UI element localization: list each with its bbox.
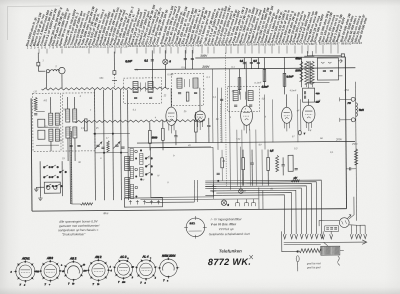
connector strip on chassis <box>124 198 162 207</box>
IF transformer T3 (dashed screen) <box>228 87 260 112</box>
rectifier / heater winding box <box>317 58 342 80</box>
svg-text:110V: 110V <box>295 69 301 72</box>
svg-text:AF 3: AF 3 <box>46 256 53 260</box>
svg-text:0,1mF: 0,1mF <box>286 75 293 78</box>
HT rail 300V <box>195 57 345 58</box>
heater bus wires <box>205 185 216 187</box>
tuning gang C1a/C1b (variable) <box>93 133 130 154</box>
svg-text:a: a <box>167 280 168 282</box>
svg-text:0,5uF: 0,5uF <box>167 73 174 76</box>
input band filter coils L4/L5 with trimmers <box>66 97 88 161</box>
loudspeaker field coil <box>355 82 364 221</box>
svg-text:0,1: 0,1 <box>144 58 148 62</box>
oscillator padder coil column <box>130 148 138 198</box>
svg-text:uuF: uuF <box>317 99 322 102</box>
tube base AF3 <box>36 256 66 286</box>
HT rail 200V <box>134 68 355 70</box>
fuse in negative lead <box>298 99 306 135</box>
chassis left frame wire <box>30 98 33 211</box>
chassis shield line (wavy) <box>42 87 169 90</box>
pick-up sockets <box>34 182 60 193</box>
right frame wire <box>345 57 346 209</box>
mains filter capacitors row <box>240 57 269 88</box>
svg-text:2500: 2500 <box>351 143 358 146</box>
speaker connector forks <box>236 199 256 206</box>
IF transformer T2 (dashed screen) <box>171 73 203 105</box>
pencil check mark <box>249 255 253 259</box>
svg-text:5000: 5000 <box>152 136 158 139</box>
valve AF3 (IF amp) <box>195 88 206 130</box>
svg-text:III: III <box>142 178 144 181</box>
tube lead drops <box>237 130 262 189</box>
barretter / regulator <box>339 215 351 228</box>
svg-text:RGN 2004: RGN 2004 <box>162 254 176 258</box>
dial lamp and line filter capacitors <box>144 50 194 88</box>
svg-text:AB 2: AB 2 <box>69 256 77 260</box>
heater cable prongs with staircase bus <box>205 180 323 240</box>
AVC rail <box>137 141 355 143</box>
svg-text:+255: +255 <box>344 89 350 92</box>
svg-text:93: 93 <box>359 41 363 45</box>
svg-text:geel by rood: geel by rood <box>307 262 321 265</box>
svg-text:ACH1: ACH1 <box>21 256 30 260</box>
valve AB2 (detector) <box>240 62 252 134</box>
component value annotations <box>33 57 358 195</box>
chassis bottom bus wire <box>32 209 346 211</box>
svg-text:a: a <box>61 265 62 267</box>
svg-text:a: a <box>127 258 128 260</box>
tube base RGN2004 <box>158 254 180 283</box>
mains plug right pairs <box>349 197 367 239</box>
svg-text:300V: 300V <box>200 54 208 58</box>
svg-text:VII: VII <box>222 160 225 163</box>
svg-text:I - IV Ingangsbandfilter: I - IV Ingangsbandfilter <box>211 217 243 221</box>
mains lead to switch <box>307 54 344 83</box>
svg-text:"Drukschakelaar": "Drukschakelaar" <box>62 232 87 236</box>
oscillator coils L2/L3 with padder <box>34 97 60 151</box>
tube base AH2 <box>83 255 112 286</box>
svg-text:4: 4 <box>155 277 156 280</box>
tube base ACH1 <box>10 256 41 286</box>
wave switch contacts column <box>140 150 153 180</box>
mains transformer TR1 <box>295 51 314 87</box>
svg-text:200V: 200V <box>335 137 342 141</box>
oscillator coil pack (hatched) <box>125 157 130 198</box>
svg-text:LG: LG <box>34 90 37 93</box>
pilot lamp 2 <box>239 189 243 193</box>
svg-text:0,1mF: 0,1mF <box>254 82 261 85</box>
switch bar wire <box>128 146 211 149</box>
interference capacitors box <box>319 220 339 231</box>
dial drive cord (dotted) <box>70 126 73 204</box>
tube base AL4 <box>132 254 158 284</box>
chassis shield line 2 (wavy) <box>75 119 205 122</box>
tuning dial drum <box>184 216 207 239</box>
svg-text:AC 2: AC 2 <box>119 255 127 259</box>
output load / tone cap <box>346 149 358 171</box>
smoothing electrolytics block <box>303 83 321 104</box>
switch wiring bundle (vertical leads) <box>70 90 129 206</box>
IF transformer T1 (dashed screen) <box>123 59 161 104</box>
bias tap marker <box>291 177 299 182</box>
tube base AC2 <box>110 255 135 284</box>
tube base AB2 <box>61 256 86 285</box>
wave band switch S1 contacts <box>38 161 67 200</box>
interstage screen wires <box>212 53 230 190</box>
paper edge crease <box>8 6 61 40</box>
svg-text:200V: 200V <box>201 65 210 69</box>
valve AL4 (output) <box>302 99 315 131</box>
svg-text:8772 WK.: 8772 WK. <box>208 257 251 267</box>
pilot lamp <box>221 200 229 207</box>
pick-up jacks <box>340 97 356 122</box>
svg-text:V en VI Osc. filter: V en VI Osc. filter <box>211 222 237 226</box>
mains plug left pair <box>322 231 333 239</box>
svg-text:4,5mF: 4,5mF <box>262 85 269 88</box>
svg-text:PU: PU <box>348 103 351 105</box>
pick-up divider <box>216 150 223 182</box>
svg-text:+4V: +4V <box>236 138 241 141</box>
band filter screening boxes (dashed) <box>33 93 61 151</box>
svg-text:MG: MG <box>99 77 103 80</box>
svg-text:AH 2: AH 2 <box>94 255 102 259</box>
screen decoupling / shield partition <box>220 88 224 143</box>
volume control and coupling C/R <box>267 149 298 185</box>
svg-text:Telefunken: Telefunken <box>219 248 242 253</box>
svg-text:geel by geel: geel by geel <box>307 266 321 269</box>
svg-text:-2V: -2V <box>258 144 262 147</box>
svg-text:4,5mF: 4,5mF <box>290 89 297 92</box>
anode feed resistors <box>238 57 304 150</box>
earth terminal E with lead <box>112 52 117 89</box>
dial escutcheon window <box>151 147 214 197</box>
valve AC2 (LF amp) <box>281 94 292 131</box>
fuse lamp in dropper lead <box>282 231 300 271</box>
svg-text:4: 4 <box>24 284 25 287</box>
svg-text:VII Pick up: VII Pick up <box>219 227 234 231</box>
svg-text:7mH: 7mH <box>359 109 364 112</box>
svg-text:Getekende schakelstand: kort: Getekende schakelstand: kort <box>209 232 250 236</box>
svg-text:4: 4 <box>110 266 111 269</box>
parts list band (numbered component legend, slanted) <box>25 4 368 53</box>
svg-text:Bus: Bus <box>104 211 109 215</box>
speaker lead drops <box>259 188 263 210</box>
valve ACH1 (mixer) <box>166 88 177 133</box>
mains feed arrow <box>284 240 367 245</box>
svg-text:S K L: S K L <box>190 223 196 225</box>
svg-text:0,1uF: 0,1uF <box>125 59 132 63</box>
svg-text:4: 4 <box>111 269 112 272</box>
secondary bottom wire <box>140 198 258 201</box>
mains dropper resistance with tap <box>299 242 344 265</box>
tone correction network <box>242 150 254 186</box>
svg-text:40mA: 40mA <box>295 57 302 60</box>
svg-text:-4V: -4V <box>293 177 297 180</box>
antenna input terminal A and coupling coil <box>37 53 65 89</box>
cathode resistors R7 R8 <box>148 120 177 150</box>
svg-text:KG: KG <box>44 99 48 102</box>
AVC filter R9 C12 <box>194 112 210 143</box>
svg-text:AL 4: AL 4 <box>142 255 149 259</box>
